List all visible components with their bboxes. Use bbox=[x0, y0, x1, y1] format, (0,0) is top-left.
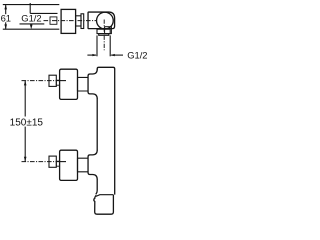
extension line left of outlet thread bbox=[96, 35, 98, 56]
arrowhead up (150±15) bbox=[24, 81, 27, 86]
neck bottom small (front view) bbox=[56, 161, 59, 166]
svg-text:150±15: 150±15 bbox=[10, 117, 44, 128]
dimension line 61 (vertical, upper segment) bbox=[5, 5, 7, 15]
extension line A (top reference plane, top view) bbox=[3, 4, 60, 6]
svg-text:G1/2: G1/2 bbox=[127, 49, 147, 60]
arrowhead down (150±15) bbox=[24, 157, 27, 162]
neck top large (front view) bbox=[78, 77, 89, 91]
bracket ring (top view) bbox=[81, 14, 84, 29]
riser pipe left edge between sockets bbox=[96, 99, 98, 151]
svg-text:61: 61 bbox=[1, 13, 11, 24]
hidden wall union rect (top view) bbox=[50, 17, 57, 24]
extension line right of outlet thread bbox=[109, 35, 111, 56]
leader arrow down from G1/2 label bbox=[30, 24, 32, 26]
center line inside top knob bbox=[60, 80, 66, 82]
knob bottom (front view) bbox=[60, 150, 78, 180]
outlet collar upper (top view) bbox=[97, 29, 110, 33]
neck bottom large (front view) bbox=[78, 158, 89, 172]
holder boss (top view, behind collar) bbox=[105, 27, 112, 34]
center line inside bottom knob bbox=[60, 161, 66, 163]
dimension line 61 (vertical, lower segment) bbox=[5, 22, 7, 29]
underline of G1/2 label bbox=[20, 23, 45, 25]
riser pipe left edge below bottom socket into elbow bbox=[96, 179, 97, 194]
dimension line 150±15 lower segment bbox=[24, 127, 26, 162]
arrowhead down (61) bbox=[4, 24, 7, 29]
knob circle (top view) bbox=[97, 12, 114, 29]
wall stem bottom (front view) bbox=[49, 156, 56, 167]
leader up from G1/2 label bbox=[29, 3, 31, 13]
outlet collar lower (top view) bbox=[99, 34, 109, 36]
dimension line G1/2 right tail with arrow bbox=[111, 54, 123, 56]
neck top small (front view) bbox=[56, 80, 59, 85]
wall stem top (front view) bbox=[49, 75, 56, 86]
dimension line G1/2 left tail with arrow bbox=[87, 54, 96, 56]
outlet cup (front view) bbox=[94, 195, 114, 214]
extension line B (outlet plane, top view) bbox=[3, 28, 60, 30]
dimension line 150±15 upper segment bbox=[24, 81, 26, 117]
knob top (front view) bbox=[60, 69, 78, 99]
knob housing (top view) bbox=[88, 12, 115, 29]
center line horizontal (top view axis) bbox=[44, 20, 97, 22]
stem (top view) bbox=[76, 16, 81, 26]
svg-text:G1/2: G1/2 bbox=[21, 13, 41, 24]
center line top inlet (front view) bbox=[22, 80, 67, 82]
socket bottom on riser bbox=[88, 150, 97, 180]
socket top on riser bbox=[88, 69, 97, 99]
vertical center line of outlet bbox=[103, 20, 105, 51]
center line bottom inlet (front view) bbox=[22, 161, 67, 163]
arrowhead up (61) bbox=[4, 5, 7, 10]
riser pipe top and right edge bbox=[97, 67, 115, 194]
elbow seam line bbox=[96, 195, 114, 197]
leader horizontal to hidden union bbox=[30, 12, 57, 14]
wall flange cap (top view) bbox=[61, 9, 76, 33]
